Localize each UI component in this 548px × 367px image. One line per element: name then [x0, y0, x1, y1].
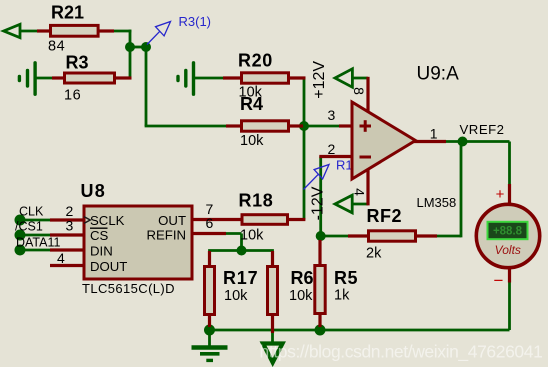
pin stub R4 right [289, 124, 303, 127]
pin stub opamp pin1 [414, 140, 446, 143]
pin stub R17 top [208, 251, 211, 267]
pin stub R5 top [318, 240, 321, 267]
U8 clock chevron [84, 217, 90, 224]
pin stub RF2 left [348, 234, 369, 237]
pin stub U8 DIN [50, 248, 83, 251]
pin stub U8 DOUT [50, 264, 83, 267]
wire R21 right to vertical [113, 30, 131, 33]
voltage probe R1 [304, 165, 330, 190]
pin stub opamp pin8 [366, 77, 369, 112]
pin stub opamp pin3 [339, 124, 353, 127]
svg-text:R20: R20 [238, 51, 273, 71]
junction node feedback [316, 231, 326, 241]
wire bottom ground rail [210, 329, 510, 332]
op-amp minus input mark [360, 156, 372, 159]
svg-text:4: 4 [57, 250, 65, 266]
wire voltmeter minus vertical [508, 282, 511, 331]
resistor R6 [268, 267, 278, 315]
pin stub R3 right [116, 76, 132, 79]
svg-text:VREF2: VREF2 [460, 122, 505, 137]
svg-text:10k: 10k [240, 228, 264, 244]
svg-text:R3(1): R3(1) [179, 14, 212, 29]
svg-text:8: 8 [351, 87, 367, 95]
svg-text:LM358: LM358 [417, 195, 457, 210]
pin stub voltmeter plus [508, 184, 511, 206]
pin stub opamp pin2 [319, 155, 353, 158]
svg-text:+12V: +12V [311, 61, 328, 99]
wire feedback vertical x320.7 pin2 to RF2 [319, 157, 322, 237]
svg-text:R18: R18 [239, 191, 274, 211]
ground arrow below R6 [263, 344, 283, 363]
svg-text:+88.8: +88.8 [493, 226, 523, 238]
svg-text:SCLK: SCLK [90, 213, 125, 228]
wire terminal CS1 [20, 234, 51, 237]
wire R6 to arrow ground [271, 330, 274, 343]
svg-text:R17: R17 [223, 268, 258, 288]
wire RF2 right [436, 235, 461, 238]
svg-text:U9:A: U9:A [417, 63, 460, 84]
svg-text:REFIN: REFIN [146, 227, 186, 242]
wire ground stub under R17 [208, 330, 211, 346]
pin stub U8 pin7 to R18 [193, 218, 242, 221]
svg-text:1k: 1k [334, 287, 350, 303]
svg-text:U8: U8 [81, 181, 106, 201]
IC U8 body [84, 206, 192, 279]
resistor RF2 [369, 231, 416, 241]
svg-text:10k: 10k [224, 288, 248, 304]
terminal dot CLK [15, 215, 26, 226]
pin stub U8 pin6 [193, 232, 226, 235]
resistor R5 [315, 266, 325, 314]
power terminal -12V pin4 [335, 195, 352, 213]
wire terminal CLK [20, 219, 51, 222]
svg-text:10k: 10k [289, 288, 313, 304]
svg-text:3: 3 [66, 217, 74, 233]
pin stub R20 left [223, 76, 242, 79]
svg-text:RF2: RF2 [367, 206, 403, 226]
wire horizontal node row y47 [130, 46, 146, 49]
svg-text:R1: R1 [336, 158, 353, 173]
pin stub R3 left [52, 76, 65, 79]
svg-text:+: + [496, 186, 505, 203]
wire vertical x146 down to R4 row [145, 47, 148, 126]
op-amp plus input mark [360, 120, 372, 132]
svg-text:DIN: DIN [90, 243, 113, 258]
svg-text:2k: 2k [366, 245, 382, 261]
junction node at R21-R3 [125, 42, 135, 52]
terminal dot DATA11 [15, 245, 26, 256]
resistor R4 [242, 121, 289, 131]
svg-text:R6: R6 [291, 268, 314, 288]
wire pin8 power tail [351, 77, 368, 80]
wire pin1 output to node VREF2 [445, 140, 510, 143]
svg-text:1: 1 [430, 126, 438, 142]
wire terminal DATA11 [20, 249, 51, 252]
svg-text:Volts: Volts [495, 243, 521, 257]
power terminal arrow R21 left [4, 24, 20, 37]
svg-text:CS: CS [90, 228, 109, 243]
wire RF2 left [321, 235, 349, 238]
svg-text:4: 4 [352, 188, 368, 196]
ground symbol for R20 (left rotated) [178, 63, 194, 94]
svg-text:-12V: -12V [309, 186, 326, 220]
svg-text:−: − [494, 271, 504, 290]
power terminal +12V pin8 [335, 69, 352, 87]
svg-text:R5: R5 [334, 268, 358, 288]
wire horizontal y126 to R4 [145, 125, 228, 128]
pin stub opamp pin4 [366, 169, 369, 205]
ground symbol bottom left [192, 348, 228, 361]
wire vertical x130 R21 row to R3 row [129, 30, 132, 78]
wire RF2 vertical to output node [460, 142, 463, 238]
resistor R21 [51, 25, 99, 36]
pin stub RF2 right [416, 234, 437, 237]
resistor R3 [65, 73, 115, 83]
svg-text:2: 2 [328, 141, 336, 157]
resistor R18 [242, 215, 288, 225]
svg-text:OUT: OUT [158, 213, 186, 228]
svg-text:R21: R21 [51, 2, 84, 22]
wire refin rail [208, 249, 274, 252]
pin stub R20 right [289, 76, 306, 79]
resistor R17 [205, 267, 215, 315]
voltage probe R3(1) [147, 22, 171, 45]
resistor R20 [242, 73, 289, 83]
wire ground to R3 [36, 77, 54, 80]
pin stub R4 left [226, 124, 242, 127]
wire pin6 refin [225, 232, 242, 235]
wire vertical x304 R20 to R18 [303, 78, 306, 220]
svg-text:DATA11: DATA11 [16, 235, 61, 249]
svg-text:CLK: CLK [19, 204, 44, 218]
voltmeter LCD [488, 222, 528, 239]
junction node R4 pin3 [299, 121, 309, 131]
pin stub R17 bottom [208, 314, 211, 327]
wire R21 left tail [20, 30, 38, 33]
svg-text:/CS1: /CS1 [15, 219, 43, 233]
wire pin6 vertical [240, 234, 243, 251]
pin stub voltmeter minus [508, 266, 511, 283]
pin stub R6 bottom [271, 314, 274, 333]
op-amp U9:A [352, 102, 416, 179]
junction node R17 bottom [204, 325, 215, 336]
svg-text:10k: 10k [240, 133, 264, 149]
pin stub R18 right [288, 218, 305, 221]
wire pin3 from node [304, 125, 340, 128]
svg-text:3: 3 [328, 107, 336, 123]
svg-text:84: 84 [48, 39, 65, 55]
pin stub U8 CS [50, 233, 83, 236]
svg-text:TLC5615C(L)D: TLC5615C(L)D [82, 281, 175, 296]
svg-text:16: 16 [64, 88, 81, 104]
pin stub U8 SCLK [50, 218, 83, 221]
wire pin4 power tail [351, 203, 368, 206]
wire ground to R20 [195, 77, 226, 80]
pin stub R6 top [271, 251, 274, 267]
terminal dot CS1 [15, 230, 26, 241]
voltmeter body [476, 204, 539, 267]
junction node refin rail [237, 246, 247, 256]
ground symbol for R3 (left rotated) [19, 63, 35, 94]
svg-text:https://blog.csdn.net/weixin_4: https://blog.csdn.net/weixin_47626041 [260, 342, 543, 363]
junction node probe R3(1) [141, 42, 151, 52]
junction node R5 bottom [315, 325, 326, 336]
pin stub R21 left [37, 29, 51, 32]
svg-text:6: 6 [206, 215, 214, 231]
pin stub R21 right [99, 29, 114, 32]
svg-text:R3: R3 [66, 52, 89, 72]
wire voltmeter plus vertical [508, 142, 511, 186]
svg-text:DOUT: DOUT [90, 259, 127, 274]
junction node VREF2 [458, 137, 468, 147]
svg-text:R4: R4 [240, 94, 263, 114]
pin stub R5 bottom [318, 314, 321, 327]
